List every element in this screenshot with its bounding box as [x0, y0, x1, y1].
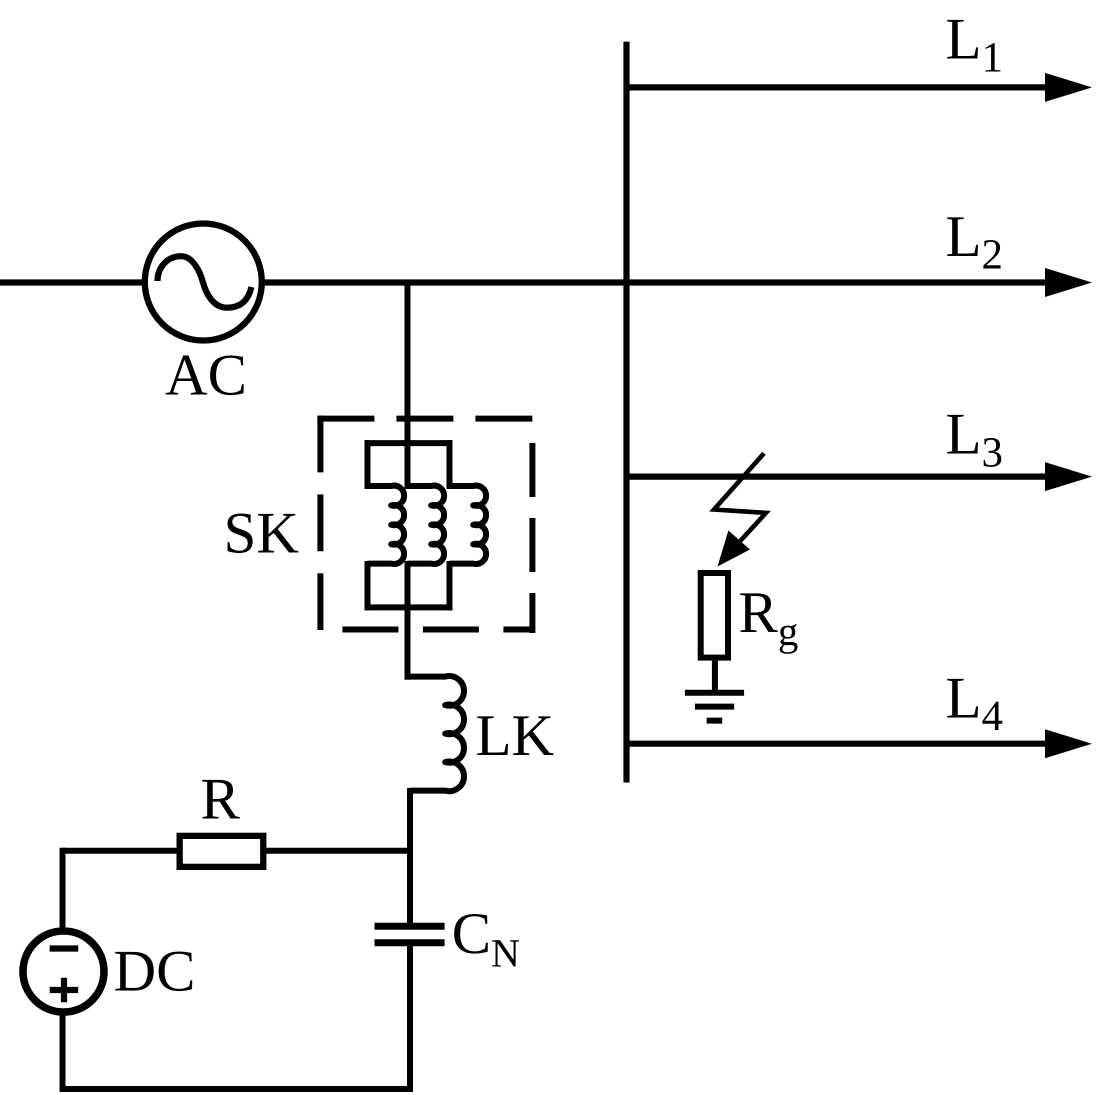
capacitor CN top plate [375, 923, 445, 930]
SK winding 1 coil [368, 486, 405, 564]
svg-text:DC: DC [114, 938, 196, 1004]
SK right winding bottom stub [447, 561, 453, 610]
lightning fault arrow polyline [714, 453, 766, 544]
wire: LK bottom down to capacitor CN top plate [407, 788, 413, 926]
wire: CN bottom plate down to bottom wire [407, 943, 413, 1089]
capacitor CN bottom plate [375, 939, 445, 946]
arrowhead L2 [1045, 268, 1092, 297]
SK transformer top rail [365, 440, 453, 446]
SK dashed box bottom edge [320, 627, 532, 633]
arrowhead L1 [1045, 73, 1092, 102]
SK left winding top stub [365, 440, 371, 489]
SK winding 2 coil [408, 486, 445, 564]
SK winding 3 coil [450, 486, 487, 564]
arrowhead L4 [1045, 729, 1092, 758]
svg-text:SK: SK [224, 500, 299, 566]
svg-text:R: R [201, 765, 241, 831]
svg-text:LK: LK [476, 702, 555, 768]
DC minus sign [50, 945, 78, 951]
SK left winding bottom stub [365, 561, 371, 610]
lightning arrowhead [718, 531, 751, 567]
AC source U1 circle [145, 224, 262, 341]
wire: junction drop from main line down to SK [405, 283, 411, 490]
feeder line L4 [627, 741, 1050, 747]
SK dashed box left edge [317, 416, 323, 633]
AC sine wave [158, 256, 252, 308]
DC plus sign [50, 978, 78, 1003]
wire: Rg to ground [712, 661, 718, 693]
arrowhead L3 [1045, 462, 1092, 491]
SK dashed box right edge [529, 443, 535, 633]
feeder line L3 [627, 474, 1050, 480]
wire: central wire winding2 bottom to LK [405, 561, 411, 680]
feeder line L1 [627, 84, 1050, 90]
wire: bottom wire of DC loop [60, 1086, 414, 1092]
bus bar vertical [623, 42, 629, 783]
SK transformer bottom rail [365, 604, 453, 610]
wire: main horizontal line from left edge through AC to bus (feeder L2) [0, 279, 1049, 285]
inductor LK coil [405, 676, 464, 791]
resistor R body [180, 836, 264, 867]
ground symbol [685, 693, 744, 721]
wire: left wire of DC loop [60, 848, 66, 1089]
SK dashed box top edge [317, 416, 535, 422]
resistor Rg body [701, 573, 728, 658]
DC source circle [23, 931, 104, 1012]
svg-text:AC: AC [165, 342, 247, 408]
wire: top wire of DC loop from left corner to junction [63, 848, 414, 854]
SK right winding top stub [447, 440, 453, 489]
